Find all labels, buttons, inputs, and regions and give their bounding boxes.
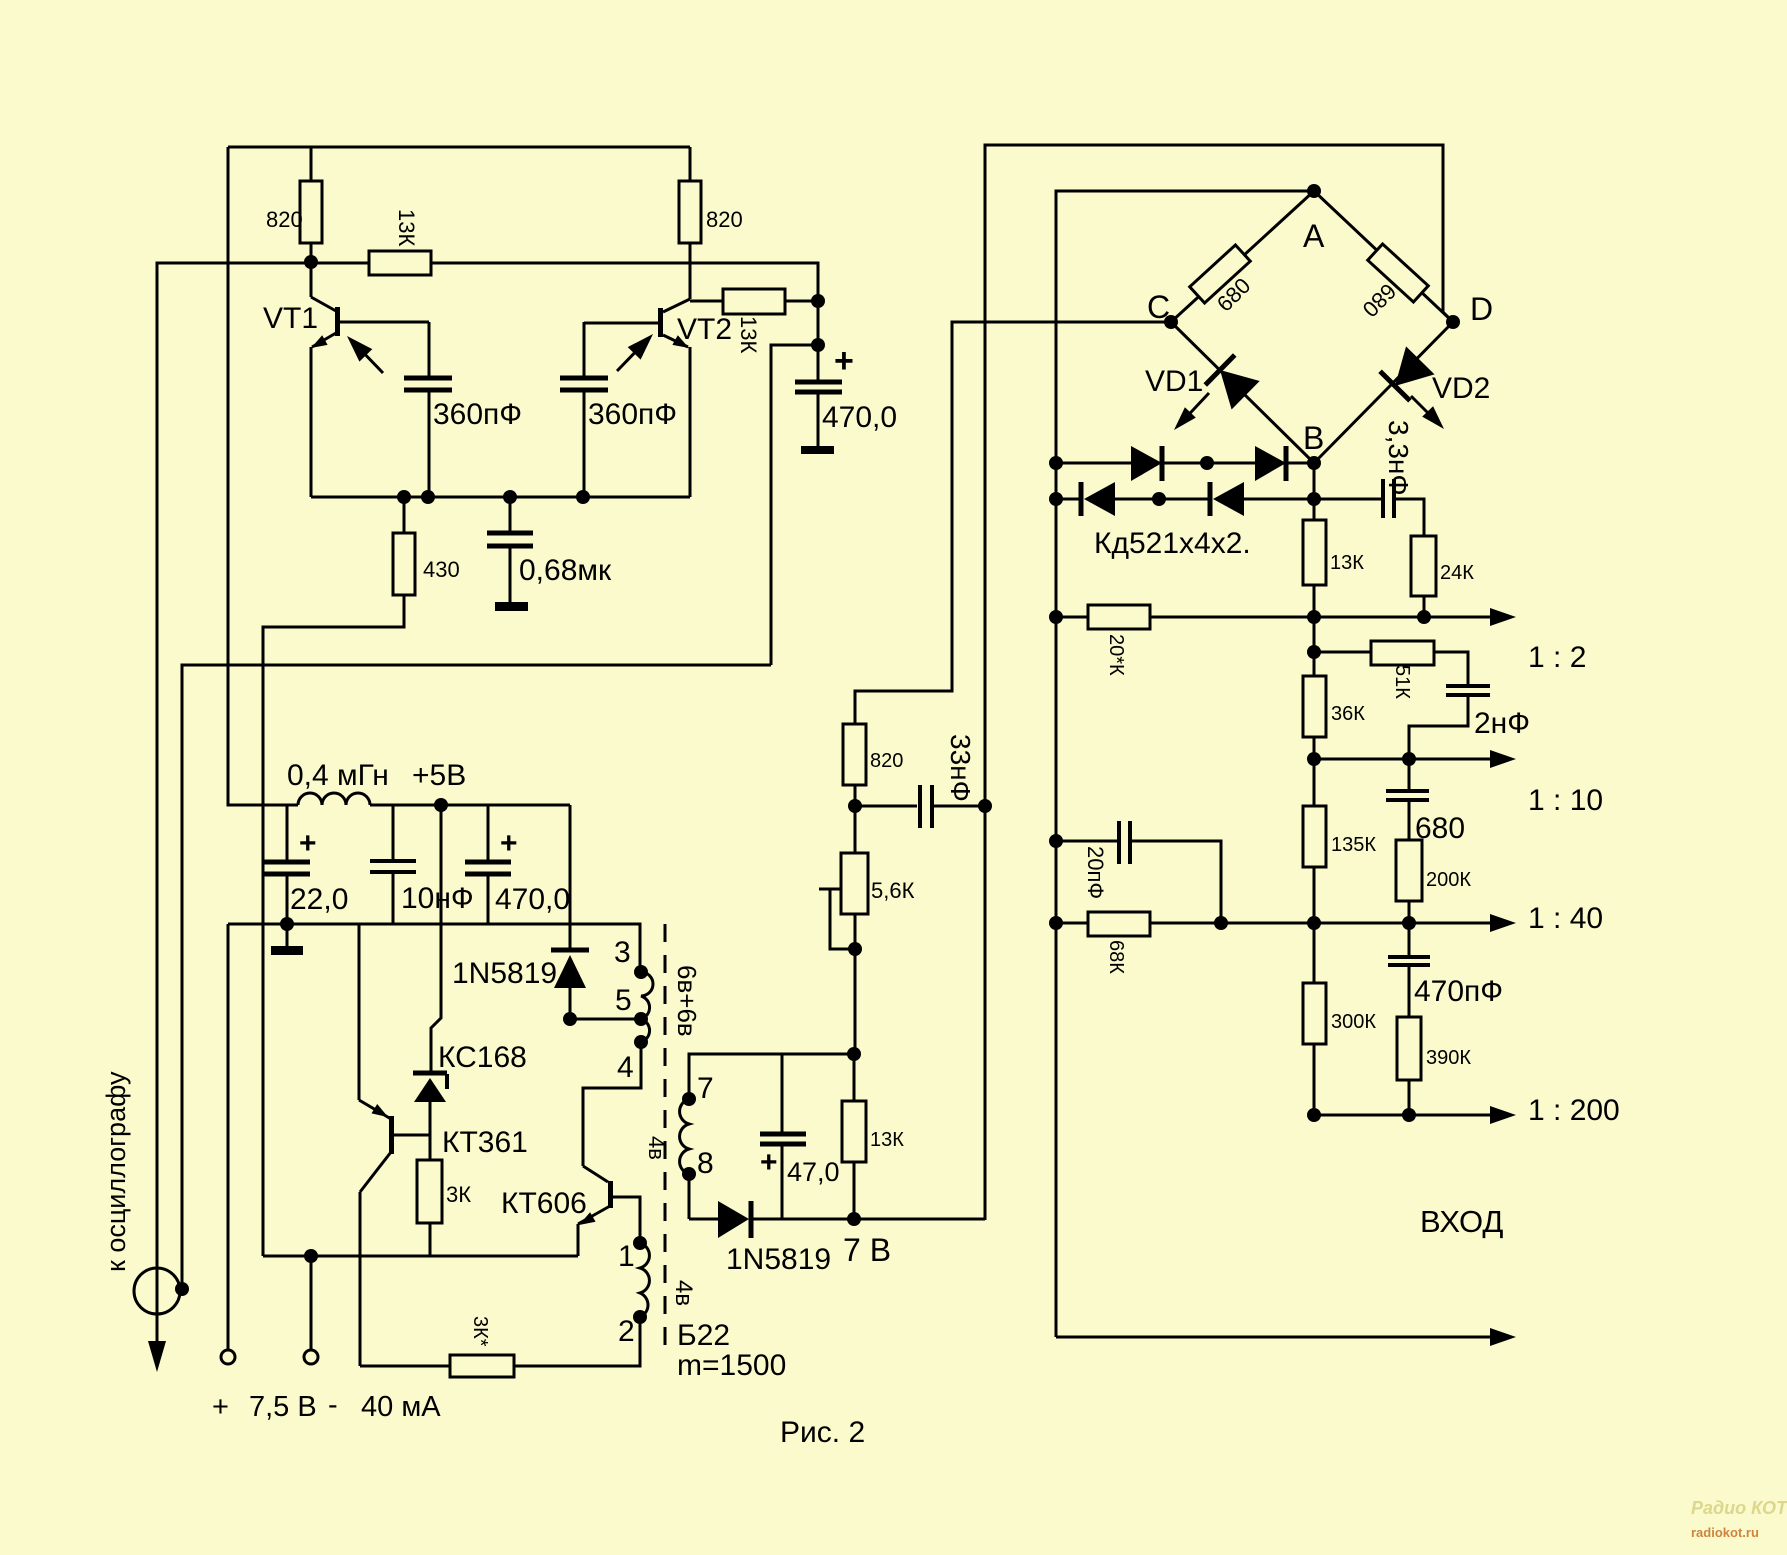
diode Кд521 D3 xyxy=(1079,482,1084,516)
node +5V xyxy=(434,798,448,812)
arrow pointer at VT2 emitter xyxy=(617,343,644,371)
svg-text:Кд521х4х2.: Кд521х4х2. xyxy=(1094,527,1251,560)
resistor 680 (C-A) xyxy=(1190,245,1251,303)
node rail2 36К xyxy=(1307,752,1321,766)
node probe ring junction xyxy=(175,1282,189,1296)
node rail4 390К xyxy=(1402,1108,1416,1122)
svg-text:1 : 200: 1 : 200 xyxy=(1528,1094,1620,1127)
svg-text:2нФ: 2нФ xyxy=(1474,707,1530,740)
svg-text:2: 2 xyxy=(618,1315,635,1348)
rail 7V bottom xyxy=(751,1218,985,1221)
capacitor 2нФ xyxy=(1446,684,1490,688)
capacitor 33нФ xyxy=(855,805,917,808)
capacitor 360пФ (VT1 base) xyxy=(428,322,431,377)
node ground rail 22,0 xyxy=(280,917,294,931)
svg-text:A: A xyxy=(1303,218,1325,254)
svg-text:КТ361: КТ361 xyxy=(442,1126,528,1159)
node 430 top xyxy=(397,490,411,504)
wire pin 7 up xyxy=(689,1054,854,1099)
svg-text:5,6К: 5,6К xyxy=(871,878,915,903)
svg-text:20*К: 20*К xyxy=(1105,634,1127,676)
transistor VT1 xyxy=(310,262,313,297)
svg-text:КС168: КС168 xyxy=(438,1041,527,1074)
wire КТ606 emitter xyxy=(577,1224,580,1256)
arrow VD1 xyxy=(1178,393,1209,426)
capacitor 360пФ (VT2 base) xyxy=(583,322,586,377)
capacitor 0,68мк xyxy=(509,497,512,532)
svg-text:0,68мк: 0,68мк xyxy=(519,554,612,587)
node 5,6К bottom xyxy=(848,942,862,956)
node D xyxy=(1446,315,1460,329)
svg-text:к осциллографу: к осциллографу xyxy=(101,1071,131,1272)
capacitor 3,3нФ xyxy=(1314,498,1383,501)
diode 1N5819 (rectifier bottom) xyxy=(689,1218,718,1221)
inductor 0,4 мГн xyxy=(298,793,370,805)
node C xyxy=(1164,315,1178,329)
svg-text:D: D xyxy=(1470,291,1493,327)
node A xyxy=(1307,184,1321,198)
wire top line to D xyxy=(985,145,1453,1220)
svg-text:20пФ: 20пФ xyxy=(1083,846,1108,899)
svg-text:1: 1 xyxy=(618,1240,635,1273)
svg-text:24К: 24К xyxy=(1440,562,1474,584)
node rail4 300К xyxy=(1307,1108,1321,1122)
node row1 left xyxy=(1049,456,1063,470)
capacitor 10нФ xyxy=(392,805,395,860)
node rail2 2нФ xyxy=(1402,752,1416,766)
wire C-B xyxy=(1171,322,1314,463)
resistor 135К xyxy=(1313,759,1316,806)
svg-text:1 : 2: 1 : 2 xyxy=(1528,641,1586,674)
node rail3 20пФ xyxy=(1214,916,1228,930)
svg-text:+: + xyxy=(500,827,518,860)
transformer core xyxy=(664,924,667,1355)
svg-text:13К: 13К xyxy=(736,316,761,353)
node rail1 left xyxy=(1049,610,1063,624)
wire D-B xyxy=(1314,322,1453,463)
node 51К tap xyxy=(1313,617,1316,652)
svg-text:m=1500: m=1500 xyxy=(677,1349,786,1382)
node B xyxy=(1307,456,1321,470)
svg-text:C: C xyxy=(1147,289,1170,325)
svg-text:Б22: Б22 xyxy=(677,1319,730,1352)
node 0,68мк top xyxy=(503,490,517,504)
wire emitter bottom rail xyxy=(311,496,690,499)
wire pin 8 down xyxy=(688,1174,691,1219)
capacitor 22,0 xyxy=(286,805,289,861)
svg-text:135К: 135К xyxy=(1331,834,1376,856)
capacitor 680 xyxy=(1408,759,1411,790)
wire +5V line xyxy=(370,804,570,807)
node rail3 135К xyxy=(1307,916,1321,930)
node 13К right xyxy=(811,294,825,308)
node row1 mid xyxy=(1200,456,1214,470)
svg-text:4: 4 xyxy=(617,1051,634,1084)
resistor 5,6К with tap xyxy=(841,853,868,914)
resistor 20*К xyxy=(1088,605,1150,629)
resistor 13К (VT2 output) xyxy=(723,289,785,314)
svg-text:390К: 390К xyxy=(1426,1047,1471,1069)
diode 1N5819 (rectifier top) xyxy=(569,805,572,949)
svg-text:7,5 В: 7,5 В xyxy=(249,1391,317,1423)
svg-text:68К: 68К xyxy=(1105,940,1127,974)
rail 1:10 xyxy=(1314,758,1490,761)
capacitor 20пФ xyxy=(1049,834,1063,848)
rail 1:40 xyxy=(1056,922,1490,925)
wire ВХОД xyxy=(1056,1336,1490,1339)
svg-text:6в+6в: 6в+6в xyxy=(672,965,702,1037)
wire C to 820 xyxy=(855,322,1171,724)
svg-text:VT2: VT2 xyxy=(677,313,732,346)
wire 430 to lower rail xyxy=(263,595,404,1256)
transistor VT2 xyxy=(689,243,692,299)
arrow VD2 xyxy=(1411,396,1440,425)
node diode anode xyxy=(563,1012,577,1026)
svg-text:820: 820 xyxy=(266,207,303,232)
node rail3 left xyxy=(1049,916,1063,930)
svg-text:3К: 3К xyxy=(446,1182,471,1207)
ground 470,0 xyxy=(801,446,834,454)
svg-text:1 : 10: 1 : 10 xyxy=(1528,784,1603,817)
svg-text:1N5819: 1N5819 xyxy=(726,1243,831,1276)
wire A-C xyxy=(1171,191,1314,322)
svg-text:22,0: 22,0 xyxy=(290,883,348,916)
svg-text:3,3нФ: 3,3нФ xyxy=(1383,420,1414,496)
resistor 24К xyxy=(1411,536,1436,596)
svg-text:13К: 13К xyxy=(1330,552,1364,574)
svg-text:Рис. 2: Рис. 2 xyxy=(780,1416,865,1449)
node rail1 13К xyxy=(1307,610,1321,624)
svg-text:4в: 4в xyxy=(670,1280,697,1306)
wire collector cross rail xyxy=(157,263,818,345)
resistor 680 (A-D) xyxy=(1368,244,1429,302)
probe ring xyxy=(134,1268,180,1314)
diode VD1 xyxy=(1205,355,1260,410)
rail 1:2 xyxy=(1056,616,1490,619)
svg-text:360пФ: 360пФ xyxy=(433,398,522,431)
wire +7,5V left drop to inductor xyxy=(228,147,298,805)
svg-text:47,0: 47,0 xyxy=(787,1157,840,1187)
svg-text:1N5819: 1N5819 xyxy=(452,957,557,990)
svg-text:470,0: 470,0 xyxy=(495,883,570,916)
wire diode row 1 xyxy=(1056,462,1131,465)
node row2 right xyxy=(1307,492,1321,506)
svg-text:470,0: 470,0 xyxy=(822,401,897,434)
svg-text:7 В: 7 В xyxy=(843,1232,891,1268)
svg-text:200К: 200К xyxy=(1426,869,1471,891)
svg-text:430: 430 xyxy=(423,557,460,582)
wire A feed and ВХОД line xyxy=(1056,191,1314,1337)
resistor 300К xyxy=(1313,923,1316,983)
svg-text:VD2: VD2 xyxy=(1432,372,1490,405)
svg-text:VT1: VT1 xyxy=(263,302,318,335)
diode Кд521 D4 xyxy=(1159,498,1210,501)
node 820/33нФ xyxy=(854,785,857,853)
node rail1 24К xyxy=(1417,610,1431,624)
capacitor 470,0 (output) xyxy=(817,345,820,381)
node row2 mid xyxy=(1152,492,1166,506)
svg-text:3К*: 3К* xyxy=(469,1316,491,1347)
resistor 68К xyxy=(1088,912,1150,936)
svg-text:40 мА: 40 мА xyxy=(361,1391,441,1423)
resistor 36К xyxy=(1313,652,1316,676)
winding 7-8 xyxy=(680,1099,689,1174)
svg-text:360пФ: 360пФ xyxy=(588,398,677,431)
resistor 13К (B divider) xyxy=(1313,463,1316,520)
arrow pointer at VT1 emitter xyxy=(356,345,383,373)
node cap1 bottom xyxy=(421,490,435,504)
capacitor 470пФ xyxy=(1408,923,1411,956)
ground 22,0 xyxy=(286,924,289,946)
svg-text:36К: 36К xyxy=(1331,703,1365,725)
wire +7,5V top rail xyxy=(228,146,690,149)
node 7V xyxy=(847,1212,861,1226)
transistor КТ361 xyxy=(389,1116,394,1154)
node cap2 bottom xyxy=(576,490,590,504)
svg-text:+: + xyxy=(299,827,317,860)
svg-text:+: + xyxy=(834,342,854,380)
svg-text:ВХОД: ВХОД xyxy=(1420,1204,1503,1239)
wire VT1 emitter xyxy=(310,347,313,497)
svg-text:4в: 4в xyxy=(644,1136,669,1160)
node 47,0 top xyxy=(847,1047,861,1061)
svg-text:10нФ: 10нФ xyxy=(401,882,474,915)
svg-text:470пФ: 470пФ xyxy=(1414,975,1503,1008)
svg-text:5: 5 xyxy=(615,984,632,1017)
resistor 820 (left, VT1 collector) xyxy=(310,147,313,181)
wire КТ361 emitter xyxy=(358,925,361,1100)
svg-text:7: 7 xyxy=(697,1072,714,1105)
node rail3 200К xyxy=(1402,916,1416,930)
svg-text:+5В: +5В xyxy=(412,759,466,792)
rail emitter КТ606 xyxy=(263,1255,578,1258)
svg-text:+: + xyxy=(212,1391,229,1423)
wire diode row 2 xyxy=(1056,498,1082,501)
terminal - 7,5V xyxy=(304,1249,318,1263)
resistor 13К (7V load) xyxy=(853,1054,856,1101)
zener КС168 xyxy=(431,805,441,1071)
transistor КТ606 xyxy=(608,1181,613,1208)
node VT1 collector xyxy=(304,255,318,269)
wire to oscilloscope xyxy=(157,263,369,1342)
resistor 3К* (feedback) xyxy=(360,1365,450,1368)
resistor 820 (right, VT2 collector) xyxy=(689,147,692,181)
winding 1-2 xyxy=(640,1243,649,1317)
svg-text:Радио КОТ: Радио КОТ xyxy=(1691,1498,1787,1518)
diode Кд521 D2 xyxy=(1207,462,1255,465)
node 33нФ right xyxy=(978,799,992,813)
wire VT2 emitter xyxy=(689,347,692,497)
svg-text:820: 820 xyxy=(870,750,903,772)
capacitor 470,0 (PSU) xyxy=(487,805,490,861)
resistor 200К xyxy=(1396,840,1422,901)
ground 0,68мк xyxy=(495,602,528,611)
svg-text:13К: 13К xyxy=(870,1129,904,1151)
winding 3-5-4 xyxy=(641,972,653,1042)
svg-text:VD1: VD1 xyxy=(1145,365,1203,398)
resistor 390К xyxy=(1397,1017,1421,1080)
svg-text:+: + xyxy=(760,1146,778,1179)
rail 1:200 xyxy=(1314,1114,1490,1117)
svg-text:-: - xyxy=(328,1389,338,1421)
svg-text:13К: 13К xyxy=(394,209,419,246)
wire common rail xyxy=(228,924,640,966)
svg-text:B: B xyxy=(1303,420,1324,456)
resistor 430 xyxy=(403,497,406,533)
wire output stub xyxy=(771,345,818,665)
wire КТ361 collector xyxy=(359,1192,362,1366)
node output to 470,0 xyxy=(811,338,825,352)
wire A-D xyxy=(1314,191,1453,322)
terminal + 7,5V xyxy=(227,924,230,1350)
svg-text:0,4 мГн: 0,4 мГн xyxy=(287,759,389,792)
svg-text:51К: 51К xyxy=(1391,665,1413,699)
svg-text:820: 820 xyxy=(706,207,743,232)
wire КТ606 collector to pin 4 xyxy=(583,1042,641,1166)
diode VD2 xyxy=(1380,346,1435,401)
wire lower return rail xyxy=(182,665,771,1288)
capacitor 47,0 xyxy=(781,1054,784,1133)
svg-text:КТ606: КТ606 xyxy=(501,1187,587,1220)
diode Кд521 D1 xyxy=(1131,446,1162,481)
svg-text:8: 8 xyxy=(697,1147,714,1180)
resistor 13К (coupling, horizontal) xyxy=(369,251,431,275)
wire VT2 collector to 13К xyxy=(690,300,723,303)
svg-text:3: 3 xyxy=(614,936,631,969)
node row2 left xyxy=(1049,492,1063,506)
resistor 3К xyxy=(417,1160,442,1223)
resistor 51К xyxy=(1314,651,1371,654)
svg-text:300К: 300К xyxy=(1331,1011,1376,1033)
resistor 820 (middle) xyxy=(843,724,866,785)
svg-text:33нФ: 33нФ xyxy=(945,734,976,802)
probe tip arrow xyxy=(148,1341,166,1372)
svg-text:radiokot.ru: radiokot.ru xyxy=(1691,1525,1759,1540)
svg-text:1 : 40: 1 : 40 xyxy=(1528,902,1603,935)
